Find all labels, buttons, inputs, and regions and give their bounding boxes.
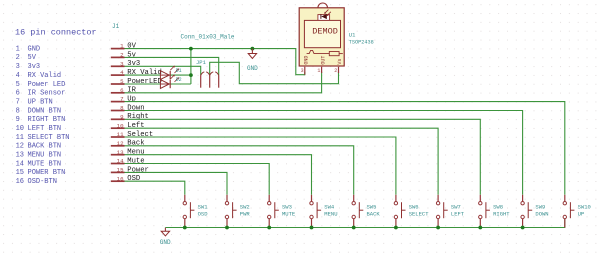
push button SW2 (PWR) bbox=[225, 195, 250, 228]
svg-text:TSOP2438: TSOP2438 bbox=[349, 40, 374, 46]
wire net RX_Valid: connector pin 4 to D1 anode bbox=[125, 74, 161, 76]
svg-text:4: 4 bbox=[16, 72, 20, 80]
svg-text:1: 1 bbox=[16, 45, 20, 53]
svg-text:13: 13 bbox=[16, 152, 24, 160]
svg-text:15: 15 bbox=[16, 169, 24, 177]
svg-text:Left: Left bbox=[127, 122, 144, 130]
svg-text:Right: Right bbox=[127, 113, 149, 121]
svg-text:9: 9 bbox=[16, 116, 20, 124]
svg-text:IR Sensor: IR Sensor bbox=[28, 90, 66, 98]
connector J1 pin 1 bbox=[111, 43, 125, 50]
svg-text:PWR: PWR bbox=[240, 211, 251, 218]
svg-text:Power LED: Power LED bbox=[28, 81, 66, 89]
svg-text:JP1: JP1 bbox=[196, 59, 207, 66]
svg-text:Up: Up bbox=[127, 96, 136, 104]
svg-text:12: 12 bbox=[117, 140, 124, 147]
junction SW2 to GND bus bbox=[225, 226, 229, 230]
svg-text:DEMOD: DEMOD bbox=[312, 27, 338, 37]
junction SW5 to GND bus bbox=[352, 226, 356, 230]
svg-text:SELECT BTN: SELECT BTN bbox=[28, 134, 70, 142]
svg-text:LEFT: LEFT bbox=[451, 211, 465, 218]
svg-text:5v: 5v bbox=[127, 51, 136, 59]
svg-text:11: 11 bbox=[117, 131, 124, 138]
svg-text:Down: Down bbox=[127, 104, 144, 112]
svg-text:MENU: MENU bbox=[324, 211, 337, 218]
svg-text:1: 1 bbox=[317, 68, 320, 74]
svg-text:14: 14 bbox=[117, 158, 124, 165]
U1 internal photodiode icon bbox=[321, 10, 331, 20]
svg-text:GND: GND bbox=[160, 239, 171, 246]
junction SW4 to GND bus bbox=[310, 226, 314, 230]
svg-text:MUTE: MUTE bbox=[282, 211, 296, 218]
junction SW8 to GND bus bbox=[478, 226, 482, 230]
junction SW7 to GND bus bbox=[436, 226, 440, 230]
push button SW4 (MENU) bbox=[310, 195, 338, 228]
junction SW3 to GND bus bbox=[267, 226, 271, 230]
svg-text:1: 1 bbox=[120, 43, 124, 50]
svg-text:GND: GND bbox=[247, 65, 258, 72]
connector J1 pin 13 bbox=[111, 149, 125, 156]
svg-text:GND: GND bbox=[304, 56, 310, 65]
svg-text:7: 7 bbox=[120, 96, 124, 103]
svg-text:3: 3 bbox=[16, 63, 20, 71]
push button SW3 (MUTE) bbox=[268, 195, 296, 228]
svg-text:SELECT: SELECT bbox=[409, 211, 430, 218]
svg-text:10: 10 bbox=[117, 122, 124, 129]
IR receiver U1 TSOP2438 body bbox=[299, 3, 344, 66]
wire net Left: connector pin 10 to SW7 bbox=[125, 128, 439, 195]
svg-text:3v3: 3v3 bbox=[127, 60, 140, 68]
svg-text:2: 2 bbox=[16, 54, 20, 62]
wire net Power: connector pin 15 to SW2 bbox=[125, 172, 228, 194]
svg-text:0V: 0V bbox=[127, 43, 136, 51]
svg-text:UP: UP bbox=[578, 211, 585, 218]
svg-text:MUTE BTN: MUTE BTN bbox=[28, 160, 62, 168]
connector J1 pin 14 bbox=[111, 158, 125, 165]
svg-text:D1: D1 bbox=[176, 68, 182, 74]
svg-text:8: 8 bbox=[16, 107, 20, 115]
svg-text:RIGHT BTN: RIGHT BTN bbox=[28, 116, 66, 124]
wire D2 cathode to 0V node bbox=[170, 83, 191, 85]
note: 16-line pin description list bbox=[16, 45, 70, 186]
wire JP1 common pin 2 to U1 Vs pin bbox=[210, 62, 339, 83]
svg-text:3v3: 3v3 bbox=[28, 63, 41, 71]
svg-text:Menu: Menu bbox=[127, 149, 144, 157]
svg-text:3: 3 bbox=[301, 68, 304, 74]
svg-text:J1: J1 bbox=[112, 23, 120, 30]
svg-text:OSD-BTN: OSD-BTN bbox=[28, 178, 57, 186]
connector J1 pin 10 bbox=[111, 122, 125, 129]
wire net 5v: connector pin 2 to JP1 pin 3 bbox=[125, 57, 219, 75]
svg-text:MENU BTN: MENU BTN bbox=[28, 152, 62, 160]
svg-text:2: 2 bbox=[120, 52, 124, 59]
svg-text:15: 15 bbox=[117, 167, 124, 174]
wire net Mute: connector pin 14 to SW3 bbox=[125, 164, 270, 195]
svg-text:OSD: OSD bbox=[198, 211, 209, 218]
svg-text:Vs: Vs bbox=[337, 59, 343, 65]
connector J1 pin 5 bbox=[111, 78, 125, 85]
junction SW9 to GND bus bbox=[521, 226, 525, 230]
svg-text:6: 6 bbox=[16, 90, 20, 98]
svg-text:9: 9 bbox=[120, 113, 124, 120]
wire net IR: connector pin 6 to U1 OUT pin bbox=[125, 72, 322, 93]
LED D1 bbox=[160, 66, 182, 80]
LED D2 bbox=[160, 75, 182, 89]
push button SW8 (RIGHT) bbox=[479, 195, 511, 228]
svg-text:6: 6 bbox=[120, 87, 124, 94]
svg-text:5: 5 bbox=[16, 81, 20, 89]
connector J1 pin 2 bbox=[111, 52, 125, 59]
svg-text:POWER BTN: POWER BTN bbox=[28, 169, 66, 177]
wire net PowerLED: connector pin 5 to D2 anode bbox=[125, 83, 161, 85]
wire vertical 0V drop to LED cathodes bbox=[190, 49, 192, 84]
connector J1 pin 3 bbox=[111, 60, 125, 67]
wire net Up: connector pin 7 to SW10 bbox=[125, 102, 565, 195]
svg-text:12: 12 bbox=[16, 143, 24, 151]
junction SW1 to GND bus bbox=[183, 226, 187, 230]
wire net 0V: connector pin 1 to U1 GND pin bbox=[125, 49, 305, 75]
svg-text:Mute: Mute bbox=[127, 157, 144, 165]
push button SW9 (DOWN) bbox=[521, 195, 549, 228]
junction node D1/D2 cathodes bbox=[189, 73, 193, 77]
svg-text:DOWN: DOWN bbox=[535, 211, 548, 218]
svg-text:LEFT BTN: LEFT BTN bbox=[28, 125, 62, 133]
svg-text:BACK BTN: BACK BTN bbox=[28, 143, 62, 151]
wire net Down: connector pin 8 to SW9 bbox=[125, 111, 523, 195]
connector J1 pin 7 bbox=[111, 96, 125, 103]
svg-text:RX Valid: RX Valid bbox=[28, 72, 62, 80]
connector J1 pin 11 bbox=[111, 131, 125, 138]
svg-text:U1: U1 bbox=[349, 32, 356, 39]
svg-text:Select: Select bbox=[127, 131, 153, 139]
push button SW10 (UP) bbox=[563, 195, 591, 228]
U1 pin 1 (OUT) bbox=[317, 67, 321, 74]
connector J1 pin 6 bbox=[111, 87, 125, 94]
connector J1 pin 9 bbox=[111, 113, 125, 120]
svg-text:DOWN BTN: DOWN BTN bbox=[28, 107, 62, 115]
connector J1 pin 8 bbox=[111, 105, 125, 112]
svg-text:Conn_01x03_Male: Conn_01x03_Male bbox=[181, 33, 235, 40]
svg-text:Power: Power bbox=[127, 166, 149, 174]
svg-text:IR: IR bbox=[127, 87, 136, 95]
connector J1 pin 16 bbox=[111, 175, 125, 182]
ground symbol (top, near U1) bbox=[247, 49, 258, 72]
U1 pin 2 (Vs) bbox=[334, 67, 338, 74]
push button SW7 (LEFT) bbox=[436, 195, 464, 228]
svg-text:GND: GND bbox=[28, 45, 41, 53]
svg-text:OSD: OSD bbox=[127, 175, 140, 183]
wire GND bus along bottom bbox=[165, 219, 564, 228]
wire net OSD: connector pin 16 to SW1 bbox=[125, 181, 185, 195]
U1 internal detector/resistor doodle bbox=[307, 50, 343, 55]
push button SW5 (BACK) bbox=[352, 195, 380, 228]
connector J1 pin 4 bbox=[111, 69, 125, 76]
wire net Menu: connector pin 13 to SW4 bbox=[125, 155, 312, 195]
svg-text:10: 10 bbox=[16, 125, 24, 133]
junction node 0V / LED drop bbox=[189, 47, 193, 51]
svg-text:Back: Back bbox=[127, 140, 144, 148]
ground symbol (bottom left) bbox=[160, 228, 171, 247]
svg-text:RX_Valid: RX_Valid bbox=[127, 69, 162, 77]
svg-text:OUT: OUT bbox=[320, 56, 326, 65]
junction node 0V / GND bbox=[251, 47, 255, 51]
svg-text:11: 11 bbox=[16, 134, 24, 142]
svg-text:RIGHT: RIGHT bbox=[493, 211, 510, 218]
svg-text:UP BTN: UP BTN bbox=[28, 98, 53, 106]
svg-text:2: 2 bbox=[334, 68, 337, 74]
svg-text:13: 13 bbox=[117, 149, 124, 156]
U1 pin 3 (GND) bbox=[301, 67, 305, 75]
wire net Back: connector pin 12 to SW5 bbox=[125, 146, 354, 195]
svg-text:5: 5 bbox=[120, 78, 124, 85]
svg-text:PowerLED: PowerLED bbox=[127, 78, 162, 86]
wire net Select: connector pin 11 to SW6 bbox=[125, 137, 396, 195]
svg-text:16: 16 bbox=[16, 178, 24, 186]
svg-text:BACK: BACK bbox=[367, 211, 381, 218]
svg-text:16 pin connector: 16 pin connector bbox=[15, 28, 97, 38]
svg-text:16: 16 bbox=[117, 175, 124, 182]
svg-text:5V: 5V bbox=[28, 54, 37, 62]
junction SW6 to GND bus bbox=[394, 226, 398, 230]
svg-text:3: 3 bbox=[120, 60, 124, 67]
push button SW1 (OSD) bbox=[183, 195, 208, 228]
wire net 3v3: connector pin 3 to JP1 pin 1 bbox=[125, 66, 201, 75]
connector J1 pin 15 bbox=[111, 167, 125, 174]
svg-text:D2: D2 bbox=[176, 77, 182, 83]
wire D1 cathode to 0V node bbox=[170, 74, 191, 76]
svg-text:8: 8 bbox=[120, 105, 124, 112]
push button SW6 (SELECT) bbox=[394, 195, 429, 228]
wire net Right: connector pin 9 to SW8 bbox=[125, 119, 481, 195]
svg-text:14: 14 bbox=[16, 160, 24, 168]
svg-text:7: 7 bbox=[16, 98, 20, 106]
connector J1 pin 12 bbox=[111, 140, 125, 147]
jumper JP1 symbol bbox=[201, 72, 219, 88]
svg-text:4: 4 bbox=[120, 69, 124, 76]
